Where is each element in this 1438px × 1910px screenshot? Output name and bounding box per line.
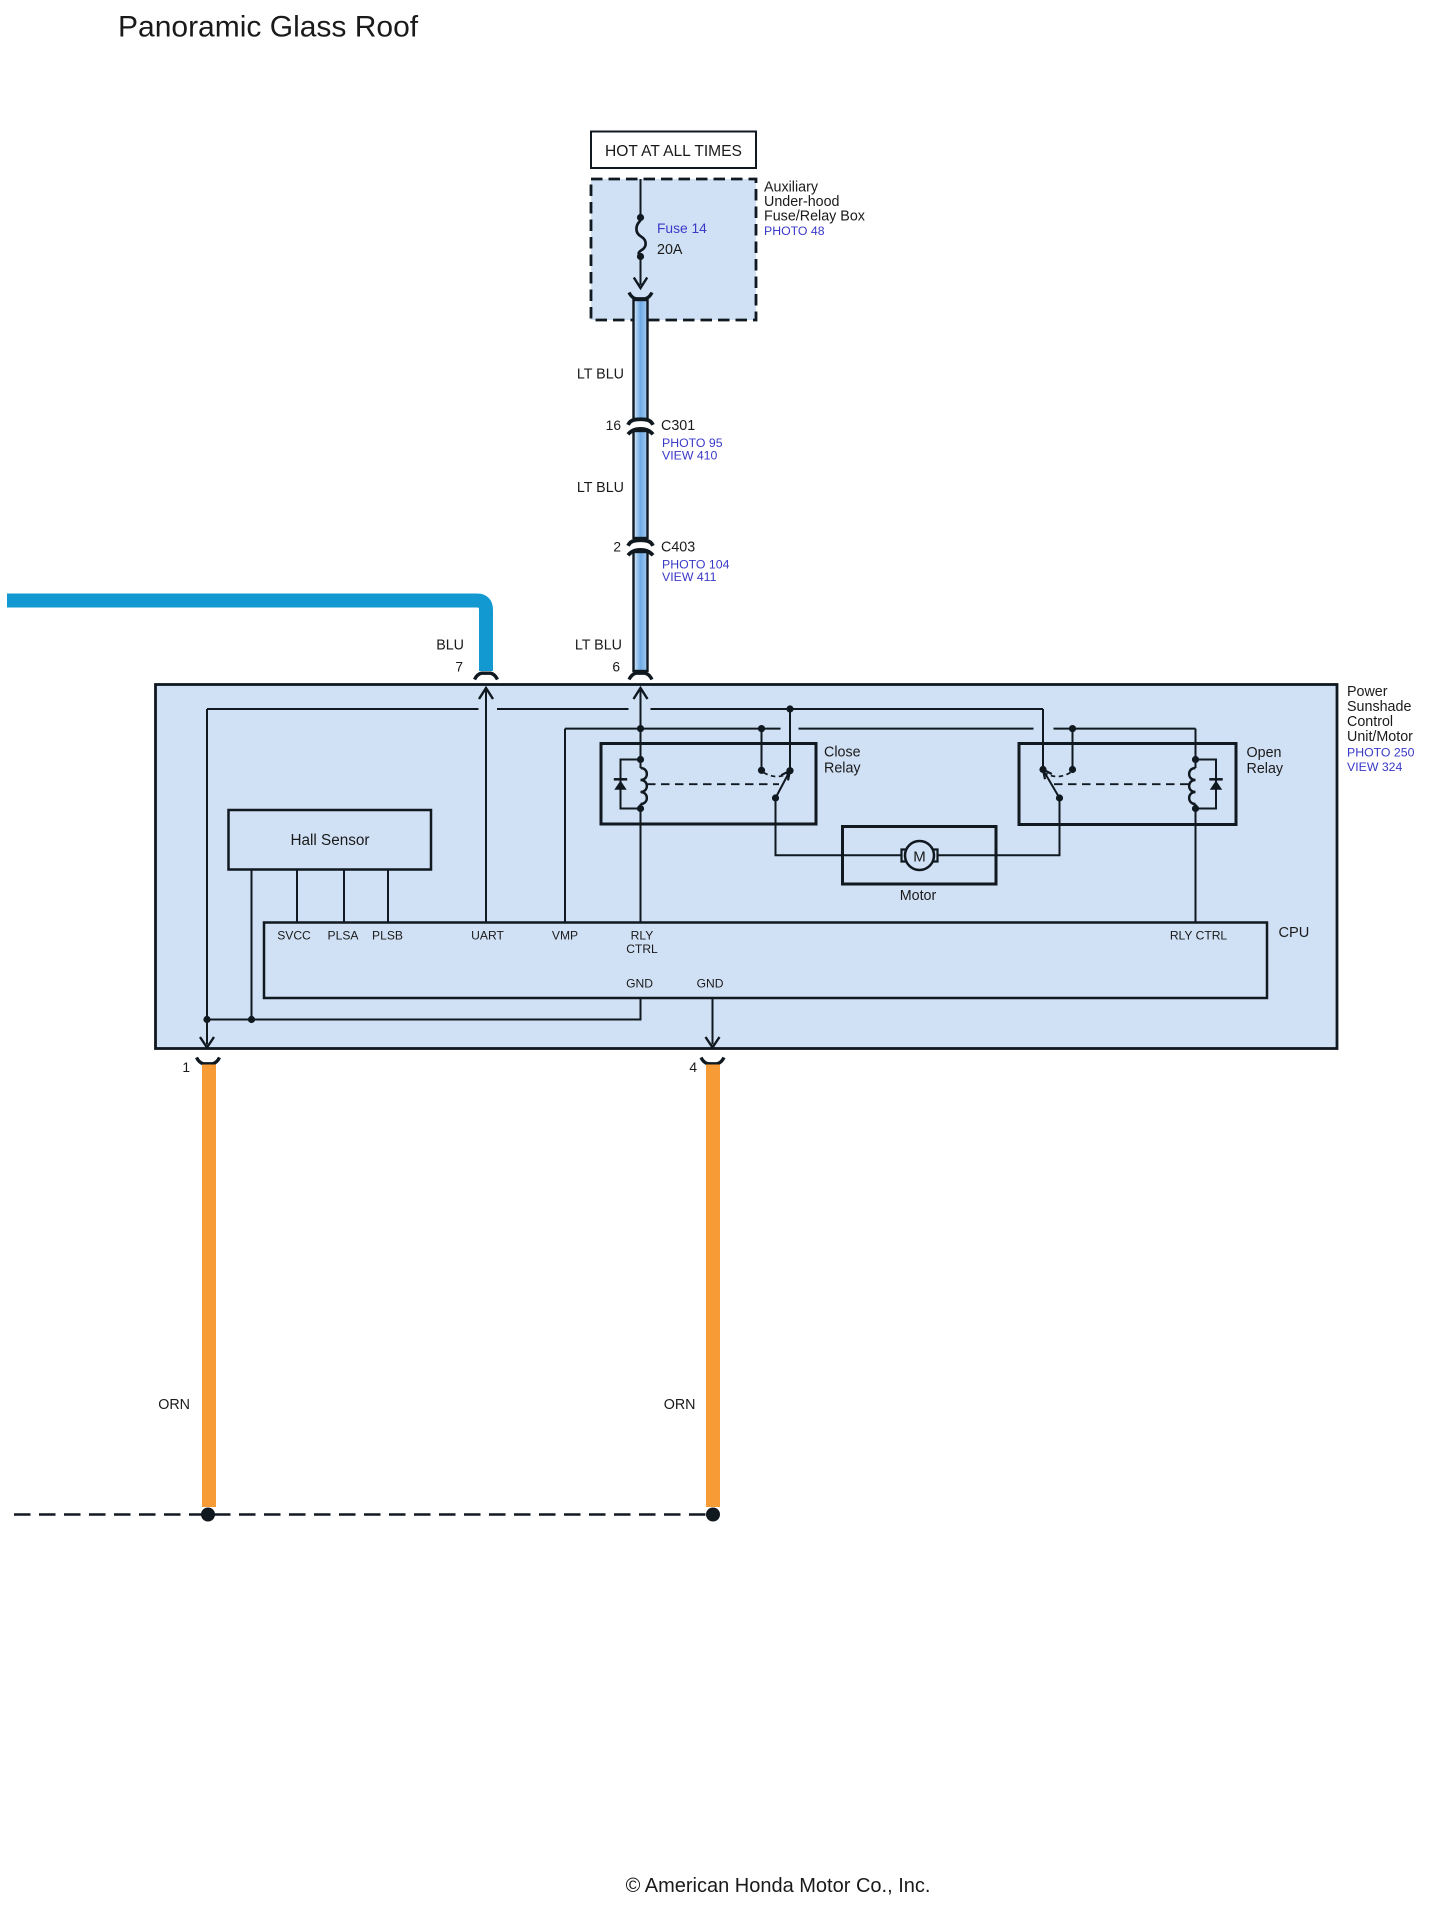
Hall Sensor box	[229, 810, 432, 870]
wire ORN left	[202, 1065, 216, 1508]
open relay armature blade	[1044, 771, 1060, 798]
connector C301	[628, 419, 653, 434]
wire: VMP bus to open relay right contact	[1072, 729, 1074, 770]
svg-text:Power: Power	[1347, 684, 1388, 700]
svg-text:GND: GND	[697, 977, 724, 991]
wire: hall sensor PLSA pin	[343, 870, 345, 923]
wire from fuse box top	[640, 179, 642, 217]
wire LT BLU segment 3	[634, 552, 648, 671]
svg-text:16: 16	[606, 418, 622, 433]
Motor box	[843, 827, 997, 885]
pin 6 entry arrow	[640, 689, 642, 768]
node: GND bus junction x251.5	[248, 1016, 255, 1023]
connector C403	[628, 540, 653, 555]
svg-text:Unit/Motor: Unit/Motor	[1347, 729, 1413, 745]
fuse F14 element	[636, 221, 645, 257]
svg-text:HOT AT ALL TIMES: HOT AT ALL TIMES	[605, 143, 742, 160]
wire: close coil to CPU RLY CTRL pin	[640, 804, 642, 923]
wire with arrow	[640, 258, 642, 285]
svg-text:PLSA: PLSA	[328, 929, 360, 943]
svg-text:Control: Control	[1347, 714, 1393, 730]
svg-text:Close: Close	[824, 745, 861, 761]
wire: ground bus to close relay right contact	[789, 709, 791, 771]
node: GND bus junction x207	[203, 1016, 210, 1023]
diode (close relay)	[614, 778, 627, 781]
CPU box	[264, 923, 1267, 999]
svg-text:LT BLU: LT BLU	[577, 367, 624, 383]
svg-text:PHOTO 250: PHOTO 250	[1347, 746, 1415, 760]
wire: x207 vertical (ground)	[206, 709, 208, 1045]
svg-text:C301: C301	[661, 418, 695, 434]
ground node dot right	[706, 1508, 720, 1522]
svg-text:Relay: Relay	[1247, 761, 1284, 777]
svg-text:VIEW 411: VIEW 411	[662, 570, 717, 584]
node: dot on y709 at x790	[786, 705, 793, 712]
ground bus dashed line	[14, 1513, 718, 1516]
svg-text:Hall Sensor: Hall Sensor	[290, 832, 369, 849]
pin 7 entry arrow / UART wire	[485, 689, 487, 923]
svg-text:4: 4	[689, 1060, 697, 1075]
wire: hall sensor SVCC pin	[296, 870, 298, 923]
svg-text:LT BLU: LT BLU	[577, 480, 624, 496]
wire: GND bus from CPU to pin1	[207, 998, 641, 1020]
dashed contact arc (close)	[764, 773, 789, 777]
svg-text:PHOTO 48: PHOTO 48	[764, 224, 825, 238]
coil of open relay	[1189, 768, 1195, 804]
node: close relay right contact	[786, 767, 793, 774]
wire: ground bus line (y709) with jump gaps	[207, 708, 1043, 710]
node: open relay right contact	[1069, 766, 1076, 773]
dashed linkage coil to blade (open)	[1054, 783, 1189, 785]
svg-text:RLY: RLY	[631, 929, 654, 943]
wire: close relay output to motor	[776, 798, 902, 855]
svg-text:1: 1	[182, 1060, 190, 1075]
node: junction on VMP bus x761.5	[758, 725, 765, 732]
svg-text:Relay: Relay	[824, 761, 861, 777]
label: Close Relay	[824, 745, 861, 777]
wire BLU (teal)	[7, 601, 486, 672]
dashed linkage coil to blade (close)	[647, 783, 779, 785]
node: open relay left contact	[1039, 766, 1046, 773]
svg-text:2: 2	[613, 540, 621, 555]
ground node dot left	[201, 1508, 215, 1522]
node: close coil top	[637, 756, 644, 763]
svg-text:ORN: ORN	[664, 1397, 696, 1413]
CPU pin labels	[277, 929, 1227, 991]
wire: open relay output to motor	[939, 798, 1060, 855]
wire: VMP bus line (y728.6) with jump gaps	[565, 728, 1196, 730]
close relay diode branch	[621, 760, 641, 809]
svg-text:7: 7	[455, 660, 463, 675]
svg-text:CTRL: CTRL	[626, 942, 658, 956]
HOT AT ALL TIMES box	[591, 132, 756, 169]
wire: VMP vertical	[564, 729, 566, 923]
motor M1 symbol	[902, 841, 938, 870]
svg-text:VIEW 324: VIEW 324	[1347, 760, 1403, 774]
svg-text:CPU: CPU	[1279, 925, 1310, 941]
svg-text:VIEW 410: VIEW 410	[662, 449, 718, 463]
dashed contact arc (open)	[1046, 773, 1071, 777]
node: open coil top	[1192, 756, 1199, 763]
svg-text:© American Honda Motor Co., In: © American Honda Motor Co., Inc.	[626, 1875, 931, 1897]
svg-text:ORN: ORN	[158, 1397, 190, 1413]
svg-text:UART: UART	[471, 929, 504, 943]
open relay diode branch	[1196, 760, 1217, 809]
connector cap (horns down) at bottom of BLU wire	[475, 673, 498, 679]
connector cap (horns down) at bottom of LT BLU wire	[629, 673, 652, 679]
Power Sunshade Control Unit/Motor box	[156, 685, 1338, 1049]
arrow down at pin4	[706, 1037, 720, 1048]
wire LT BLU segment 2	[634, 431, 648, 538]
node: open coil bottom	[1192, 805, 1199, 812]
svg-text:BLU: BLU	[436, 638, 464, 654]
svg-text:GND: GND	[626, 977, 653, 991]
coil of close relay	[641, 768, 647, 804]
svg-text:Panoramic Glass Roof: Panoramic Glass Roof	[118, 11, 419, 44]
svg-text:LT BLU: LT BLU	[575, 638, 622, 654]
arrow down at pin1	[200, 1037, 214, 1048]
wire: hall sensor ground to GND bus	[251, 870, 253, 1020]
svg-text:6: 6	[612, 660, 620, 675]
svg-text:Fuse/Relay Box: Fuse/Relay Box	[764, 209, 865, 225]
wire: ground bus to open relay left contact	[1042, 709, 1044, 770]
node: dot at (1072.5,728.6)	[1069, 725, 1076, 732]
label: PHOTO 95 / VIEW 410	[662, 436, 723, 463]
relay K2 Open Relay box	[1019, 744, 1236, 825]
wire ORN right	[706, 1065, 720, 1508]
svg-text:SVCC: SVCC	[277, 929, 311, 943]
label: Open Relay	[1247, 745, 1284, 777]
connector cap (horns up) pin 1	[197, 1058, 220, 1064]
label: Auxiliary Under-hood Fuse/Relay Box	[764, 180, 865, 225]
wire: hall sensor PLSB pin	[387, 870, 389, 923]
label: PHOTO 250 / VIEW 324	[1347, 746, 1415, 775]
junction dot	[637, 253, 644, 260]
wire: VMP bus corner down to open coil	[1195, 729, 1197, 768]
connector cap (horns up) at top of LT BLU wire	[629, 293, 652, 299]
svg-text:M: M	[913, 849, 926, 866]
relay K1 Close Relay box	[601, 744, 816, 825]
node: close coil bottom	[637, 805, 644, 812]
label: Power Sunshade Control Unit/Motor	[1347, 684, 1413, 745]
svg-text:VMP: VMP	[552, 929, 578, 943]
node: dot at (640.5,728.6)	[637, 725, 644, 732]
svg-text:PLSB: PLSB	[372, 929, 403, 943]
diode (open relay)	[1209, 778, 1222, 781]
junction dot	[637, 214, 644, 221]
svg-text:20A: 20A	[657, 242, 683, 258]
node: close relay left contact	[758, 767, 765, 774]
svg-text:RLY CTRL: RLY CTRL	[1170, 929, 1228, 943]
svg-text:Motor: Motor	[900, 888, 937, 904]
close relay armature blade	[776, 772, 790, 798]
svg-text:Sunshade: Sunshade	[1347, 699, 1411, 715]
wire LT BLU segment 1	[634, 300, 648, 419]
wire: GND2 from CPU to pin4	[712, 998, 714, 1045]
svg-text:Open: Open	[1247, 745, 1282, 761]
label: PHOTO 104 / VIEW 411	[662, 558, 730, 585]
svg-text:C403: C403	[661, 540, 695, 556]
wire: VMP bus to close relay left contact	[761, 729, 763, 771]
wire: open coil to CPU RLY CTRL pin	[1195, 804, 1197, 923]
Auxiliary Under-hood Fuse/Relay Box (dashed)	[591, 179, 756, 320]
connector cap (horns up) pin 4	[701, 1058, 724, 1064]
svg-text:Fuse 14: Fuse 14	[657, 221, 707, 236]
